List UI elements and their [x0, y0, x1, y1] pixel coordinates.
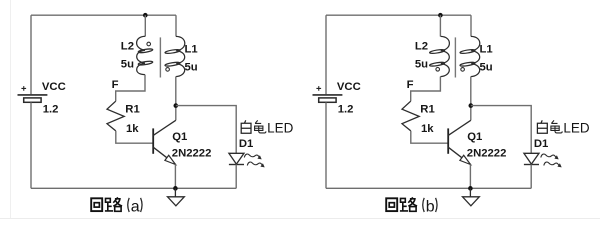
- node collector junction dot (b): [469, 103, 474, 108]
- label 路 glyph of 回路(b): [400, 197, 417, 211]
- LED light arrow upper (a): [244, 154, 259, 158]
- node collector junction dot (a): [174, 103, 179, 108]
- LED D1 triangle (b): [524, 153, 539, 164]
- wire LED down (b): [530, 165, 532, 189]
- transistor Q1 base bar (a): [152, 128, 154, 153]
- wire bottom rail (a): [31, 187, 236, 189]
- wire L1 top drop (b): [470, 15, 472, 36]
- inductor L2 phase dot (b): [436, 68, 440, 72]
- LED light arrow upper (b): [541, 154, 556, 158]
- resistor R1 zigzag (b): [402, 101, 419, 131]
- wire L2 top drop (b): [439, 15, 441, 36]
- label 路 glyph of 回路(a): [105, 197, 122, 211]
- wire R1 to base (b): [411, 131, 448, 143]
- LED light arrow lower (a): [247, 162, 262, 166]
- transistor Q1 emitter stroke (a): [153, 147, 175, 164]
- wire bottom rail (b): [326, 187, 531, 189]
- inductor L1 winding (a): [165, 36, 185, 76]
- svg-text:1.2: 1.2: [338, 103, 354, 115]
- ground stub (a): [174, 188, 176, 196]
- inductor L2 winding (b): [429, 36, 449, 76]
- svg-text:a: a: [131, 199, 140, 216]
- label (a) caption parens: [128, 198, 142, 212]
- label 色 color glyph (b): [551, 120, 562, 132]
- svg-text:L2: L2: [415, 40, 428, 52]
- wire top rail (a): [31, 14, 176, 16]
- wire L2 top drop (a): [144, 15, 146, 36]
- battery VCC top plate (a): [18, 94, 48, 96]
- wire collector to LED branch (b): [471, 106, 531, 153]
- battery VCC top plate (b): [313, 94, 343, 96]
- svg-text:F: F: [112, 79, 119, 91]
- inductor L2 phase dot (a): [147, 42, 151, 46]
- svg-text:5u: 5u: [121, 58, 134, 70]
- svg-text:L2: L2: [121, 40, 134, 52]
- page border faint bottom line: [0, 218, 600, 220]
- inductor L1 phase dot (a): [166, 68, 170, 72]
- wire collector to LED branch (a): [176, 106, 236, 153]
- label 白 white glyph (a): [241, 120, 251, 133]
- wire LED down (a): [235, 165, 237, 189]
- svg-text:LED: LED: [267, 120, 294, 135]
- label 色 color glyph (a): [255, 120, 266, 132]
- wire left rail lower (b): [325, 102, 327, 188]
- wire collector riser (b): [470, 77, 472, 121]
- node top junction dot (a): [143, 13, 148, 18]
- page border faint left line: [10, 0, 12, 218]
- wire left rail lower (a): [30, 102, 32, 188]
- label 回 glyph of 回路(b): [386, 198, 397, 211]
- battery VCC plus sign (b): [316, 86, 321, 91]
- ground triangle (b): [463, 197, 480, 206]
- battery VCC plus sign (a): [21, 86, 26, 91]
- svg-text:LED: LED: [563, 120, 590, 135]
- wire R1 to base (a): [116, 131, 153, 143]
- label 白 white glyph (b): [537, 120, 547, 133]
- battery VCC body (b): [319, 98, 336, 102]
- svg-text:1k: 1k: [421, 123, 434, 135]
- wire left rail upper (b): [325, 15, 327, 94]
- label 回 glyph of 回路(a): [91, 198, 102, 211]
- LED light arrow lower (b): [544, 162, 559, 166]
- svg-text:1.2: 1.2: [43, 103, 59, 115]
- svg-text:F: F: [407, 79, 414, 91]
- resistor R1 zigzag (a): [107, 101, 124, 131]
- inductor L2 winding (a): [137, 36, 153, 74]
- svg-text:L1: L1: [480, 43, 493, 55]
- svg-text:5u: 5u: [415, 58, 428, 70]
- LED D1 cathode bar (a): [229, 164, 244, 166]
- svg-text:1k: 1k: [126, 123, 139, 135]
- svg-text:5u: 5u: [480, 62, 493, 74]
- wire L2 to node F (a): [116, 75, 145, 102]
- node emitter junction dot (a): [173, 186, 178, 191]
- ground triangle (a): [168, 197, 185, 206]
- wire emitter down (b): [469, 164, 471, 188]
- wire left rail upper (a): [30, 15, 32, 94]
- transistor Q1 collector stroke (b): [448, 120, 471, 135]
- node top junction dot (b): [438, 13, 443, 18]
- wire L2 to node F (b): [411, 77, 441, 102]
- transistor Q1 base bar (b): [447, 128, 449, 153]
- transformer core (b): [454, 37, 456, 77]
- svg-text:D1: D1: [239, 138, 253, 150]
- battery VCC body (a): [24, 98, 41, 102]
- svg-text:R1: R1: [420, 103, 434, 115]
- svg-text:b: b: [426, 199, 435, 216]
- svg-text:R1: R1: [125, 103, 139, 115]
- svg-text:2N2222: 2N2222: [467, 148, 507, 160]
- label (b) caption parens: [423, 198, 437, 212]
- svg-text:Q1: Q1: [172, 131, 187, 143]
- inductor L1 phase dot (b): [461, 68, 465, 72]
- wire collector riser (a): [175, 77, 177, 121]
- svg-text:D1: D1: [534, 138, 548, 150]
- transistor Q1 emitter arrow (a): [165, 155, 176, 164]
- transistor Q1 emitter stroke (b): [448, 147, 470, 164]
- transistor Q1 emitter arrow (b): [460, 155, 471, 164]
- svg-text:Q1: Q1: [467, 131, 482, 143]
- LED D1 cathode bar (b): [524, 164, 539, 166]
- svg-text:VCC: VCC: [42, 81, 66, 93]
- inductor L1 winding (b): [460, 36, 480, 76]
- LED D1 triangle (a): [229, 153, 244, 164]
- transformer core (a): [159, 37, 161, 77]
- wire top rail (b): [326, 14, 471, 16]
- ground stub (b): [469, 188, 471, 196]
- svg-text:2N2222: 2N2222: [172, 148, 212, 160]
- transistor Q1 collector stroke (a): [153, 120, 176, 135]
- node emitter junction dot (b): [468, 186, 473, 191]
- wire L1 top drop (a): [175, 15, 177, 36]
- svg-text:5u: 5u: [185, 62, 198, 74]
- svg-text:VCC: VCC: [337, 81, 361, 93]
- svg-text:L1: L1: [185, 43, 198, 55]
- wire emitter down (a): [174, 164, 176, 188]
